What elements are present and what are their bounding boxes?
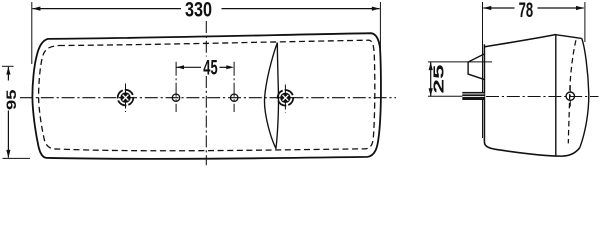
side view housing left face	[483, 44, 485, 142]
svg-text:95: 95	[3, 89, 19, 110]
extension line right of 78	[584, 2, 586, 42]
screw left head	[120, 92, 130, 102]
horizontal centerline front view	[20, 97, 396, 99]
dimension 25 arrow bottom	[429, 88, 433, 96]
svg-text:78: 78	[519, 0, 534, 22]
threaded stud thread line	[462, 93, 484, 95]
side view lens joint line	[555, 34, 557, 156]
side view housing top edge	[484, 35, 555, 47]
threaded stud	[462, 92, 484, 100]
dimension 25 arrow top	[429, 62, 433, 70]
dimension 78 line	[483, 7, 583, 9]
extension line top of 95	[2, 65, 14, 67]
extension/centerline through hole left	[175, 62, 177, 112]
dimension 45 line	[176, 66, 227, 68]
side view lens inner dashed line	[568, 40, 576, 143]
screw left centerline vertical	[125, 84, 127, 113]
dimension 45 arrow left	[176, 65, 184, 69]
extension line right of 330	[379, 2, 381, 50]
mounting hole left	[172, 94, 179, 101]
lamp front view outer outline	[32, 33, 381, 159]
mounting gasket wedge	[468, 54, 484, 80]
dimension 330 arrow left	[32, 7, 40, 11]
screw right cross slot	[283, 95, 289, 101]
dimension 330 arrow right	[372, 7, 380, 11]
dimension 25 line	[430, 62, 432, 96]
dimension 330 line	[33, 8, 380, 10]
extension line bottom of 25	[428, 95, 463, 97]
svg-text:45: 45	[203, 57, 217, 80]
dimension 95 arrow top	[6, 67, 10, 75]
mounting hole right	[231, 94, 238, 101]
dimension 78 arrow right	[576, 6, 584, 10]
svg-text:25: 25	[430, 65, 447, 94]
dimension 95 line lower segment	[7, 111, 9, 158]
screw left cross slot	[123, 95, 129, 101]
extension line bottom of 95	[3, 157, 31, 159]
side view screw boss circle	[566, 92, 574, 100]
lens prism crescent	[264, 43, 278, 149]
side view lens right profile	[580, 38, 589, 147]
vertical centerline front view lower	[205, 76, 207, 165]
side view lens top edge	[556, 35, 582, 39]
svg-text:330: 330	[185, 0, 212, 22]
extension line left of 330	[31, 2, 33, 64]
vertical centerline front view upper	[205, 21, 207, 57]
screw right outer ring	[278, 90, 294, 106]
screw left outer ring	[118, 90, 134, 106]
side view screw boss centerline	[569, 86, 571, 108]
extension line left of 78 / front face line	[482, 2, 484, 138]
threaded stud thread line 2	[462, 96, 484, 98]
side view bottom edge	[484, 142, 579, 156]
dimension 95 arrow bottom	[6, 150, 10, 158]
lamp front view inner dashed outline	[39, 40, 375, 151]
screw right head	[280, 93, 290, 103]
screw right centerline vertical	[284, 85, 286, 113]
dimension 78 arrow left	[483, 6, 491, 10]
dimension 95 line upper segment	[7, 67, 9, 81]
dimension 45 arrow right	[226, 65, 234, 69]
extension/centerline through hole right	[233, 62, 235, 112]
extension line top of 25	[428, 61, 492, 63]
side view horizontal centerline	[486, 96, 599, 98]
